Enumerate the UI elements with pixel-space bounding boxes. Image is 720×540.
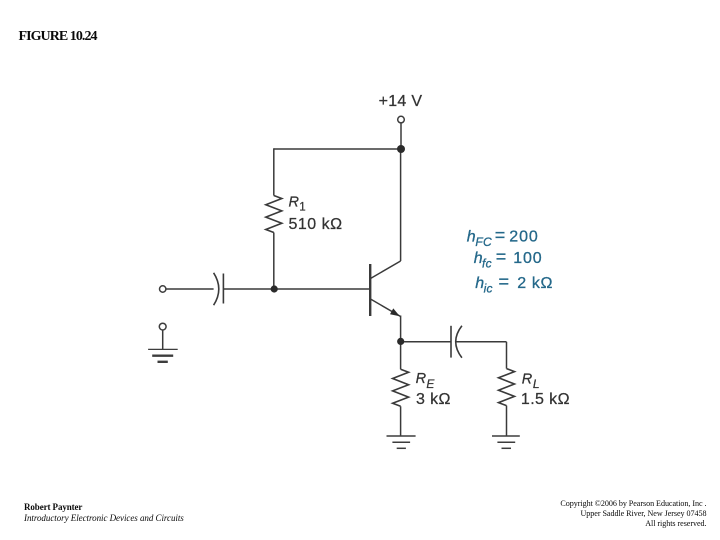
svg-text:3 kΩ: 3 kΩ [416, 391, 451, 408]
svg-text:R: R [289, 194, 300, 210]
svg-text:fc: fc [482, 257, 492, 271]
svg-text:E: E [426, 377, 435, 391]
svg-text:FC: FC [475, 235, 492, 249]
svg-text:1: 1 [299, 202, 305, 214]
svg-text:=: = [496, 247, 507, 267]
svg-text:ic: ic [484, 281, 493, 295]
svg-text:=: = [499, 272, 510, 292]
svg-text:+14 V: +14 V [379, 93, 423, 110]
svg-text:=: = [495, 225, 506, 245]
svg-text:510 kΩ: 510 kΩ [289, 216, 343, 233]
svg-text:L: L [533, 377, 540, 391]
svg-text:200: 200 [509, 228, 538, 245]
svg-text:R: R [522, 371, 533, 387]
svg-text:2 kΩ: 2 kΩ [517, 275, 553, 292]
svg-text:100: 100 [513, 250, 542, 267]
svg-text:1.5 kΩ: 1.5 kΩ [521, 391, 570, 408]
svg-text:R: R [416, 371, 427, 387]
